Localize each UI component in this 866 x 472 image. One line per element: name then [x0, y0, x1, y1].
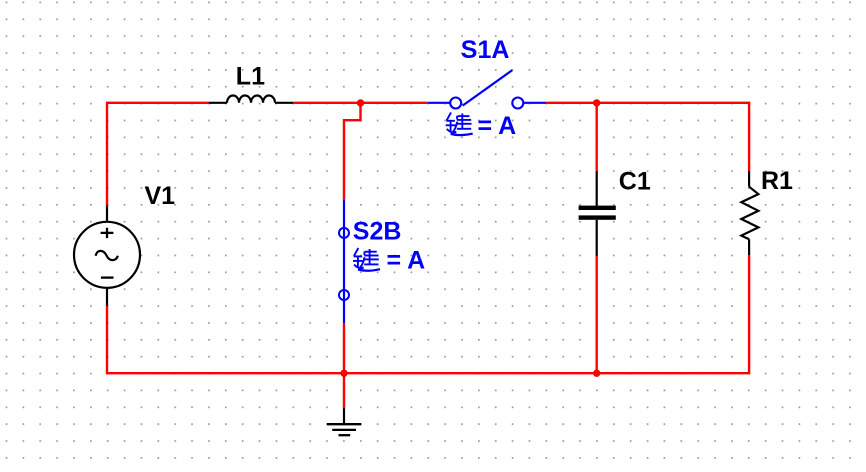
capacitor C1 [579, 171, 616, 256]
switch S2B [339, 199, 349, 323]
resistor R1 [741, 171, 758, 255]
label key = A for S2B [353, 247, 425, 275]
wire: C1 bottom to bottom net [596, 256, 598, 373]
wire: S2B bottom to bottom net [343, 323, 345, 373]
junction: top net at C1 branch [593, 99, 600, 106]
svg-text:= A: = A [478, 112, 517, 140]
junction: bottom net at C1 branch [593, 370, 600, 377]
wire: jog from top-net junction down to S2B [344, 103, 361, 200]
switch S1A [428, 70, 546, 108]
wire: L1 right to S1A left pin [293, 102, 428, 104]
svg-text:R1: R1 [761, 167, 793, 195]
label key = A for S1A [446, 112, 516, 140]
ground [327, 408, 361, 436]
junction: top net at S2B branch [357, 99, 364, 106]
svg-text:S2B: S2B [353, 218, 402, 246]
inductor L1 [209, 96, 293, 103]
svg-text:C1: C1 [619, 168, 651, 196]
svg-text:L1: L1 [236, 63, 265, 91]
svg-text:V1: V1 [145, 182, 176, 210]
junction: bottom net at S2B/ground branch [340, 370, 347, 377]
voltage source V1 [74, 205, 140, 306]
wire: top net drop to C1 [596, 103, 598, 171]
svg-text:S1A: S1A [461, 36, 510, 64]
wire: bottom net to ground [343, 373, 345, 408]
wire: bottom net [106, 255, 750, 374]
svg-text:= A: = A [387, 247, 426, 275]
wire: S1A right pin to top-right corner down to R1 [546, 103, 749, 171]
wire: net from V1 plus terminal up and right to L1 [106, 103, 209, 206]
